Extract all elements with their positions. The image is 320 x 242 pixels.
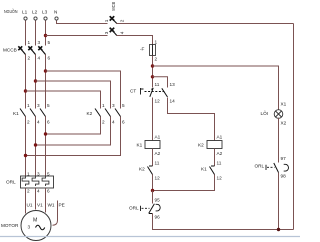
node phase2 tap: [34, 79, 37, 82]
wire phase2 MCCB to K1: [35, 55, 37, 109]
wire L1 down to MCCB: [25, 21, 27, 46]
svg-text:V1: V1: [37, 203, 43, 208]
MCCB pole 5-6: [38, 40, 50, 61]
svg-text:4: 4: [37, 120, 40, 125]
wire L3 tap to MCB pole2: [46, 35, 108, 37]
svg-text:6: 6: [47, 120, 50, 125]
node K2p3 join: [24, 154, 27, 157]
fuse F: [140, 40, 158, 62]
node lamp branch to bottom rail: [277, 228, 280, 231]
svg-text:1: 1: [27, 103, 30, 108]
svg-text:ORL: ORL: [6, 180, 16, 185]
svg-text:PE: PE: [59, 203, 65, 208]
wire N to MCB pole1: [57, 21, 108, 24]
node phase3 tap: [44, 69, 47, 72]
wire lamp to ORL97: [278, 118, 280, 163]
contactor K2 main contacts: [87, 103, 126, 125]
svg-text:2: 2: [28, 56, 31, 61]
wire node to ORL 95: [152, 191, 154, 204]
svg-text:W1: W1: [48, 203, 55, 208]
MCCB pole 3-4: [28, 40, 40, 61]
wire MCB 2 to right rail: [117, 23, 294, 25]
svg-text:X2: X2: [281, 121, 287, 126]
node CT13 tap: [151, 75, 154, 78]
svg-text:5: 5: [47, 172, 50, 177]
svg-text:L3: L3: [42, 10, 48, 15]
svg-text:L1: L1: [22, 10, 28, 15]
NC contact K1: [201, 161, 222, 181]
svg-text:4: 4: [38, 56, 41, 61]
node K2p1 join: [44, 132, 47, 135]
wire K2 coil to K1 NC: [214, 149, 216, 167]
MCB pole 1-2: [104, 16, 125, 23]
wire phase1 MCCB to K1: [25, 55, 27, 109]
svg-text:5: 5: [48, 40, 51, 45]
svg-text:1: 1: [102, 103, 105, 108]
svg-text:1: 1: [28, 40, 31, 45]
svg-text:12: 12: [155, 99, 161, 104]
wire K1 coil to K2 NC: [152, 149, 154, 167]
wire K1 outputs down to ORL: [25, 117, 27, 177]
svg-text:95: 95: [155, 198, 161, 203]
wire L3 down to MCCB: [45, 21, 47, 46]
wire L2 down to MCCB: [35, 21, 37, 46]
NC contact K2: [139, 161, 160, 181]
wire phase1 to K2 pole1: [26, 91, 101, 109]
wire fuse down: [152, 56, 154, 88]
contactor K1 main contacts: [13, 103, 50, 125]
wire PE to motor frame: [53, 201, 58, 226]
svg-text:2: 2: [155, 57, 158, 62]
svg-text:2: 2: [102, 120, 105, 125]
ORL NO contact 97-98: [255, 156, 289, 179]
svg-text:LỖI: LỖI: [261, 110, 269, 116]
svg-text:98: 98: [281, 174, 287, 179]
wire to lamp branch: [153, 66, 279, 110]
node L3 tap: [44, 34, 47, 37]
svg-text:MCB: MCB: [111, 2, 116, 11]
wire phase3 MCCB to K1: [45, 55, 47, 109]
lamp LOI: [261, 110, 283, 119]
wire to CT 13: [153, 77, 168, 88]
MCCB pole 1-2: [18, 40, 30, 61]
wire right rail down: [293, 24, 295, 230]
svg-text:11: 11: [155, 82, 160, 87]
svg-text:3: 3: [112, 103, 115, 108]
svg-text:5: 5: [122, 103, 125, 108]
svg-text:3: 3: [104, 31, 109, 34]
wire V1 to motor: [35, 188, 37, 210]
motor M: [1, 211, 51, 241]
wire K2 NC down to node: [152, 175, 154, 191]
svg-text:97: 97: [281, 156, 287, 161]
svg-text:96: 96: [155, 215, 161, 220]
svg-text:1: 1: [27, 172, 30, 177]
wire CT14 to K2 coil: [168, 98, 215, 141]
wire ORL 96 to bottom rail: [153, 214, 294, 230]
svg-text:M: M: [33, 218, 37, 224]
svg-text:K1: K1: [13, 111, 19, 116]
svg-text:6: 6: [48, 56, 51, 61]
coil K2: [198, 135, 223, 157]
svg-text:5: 5: [47, 103, 50, 108]
wire phase2 to K2 pole2: [36, 81, 111, 109]
wire K2 pole2 out to phase2: [36, 117, 111, 146]
node lamp tap: [151, 64, 154, 67]
svg-text:3: 3: [38, 40, 41, 45]
svg-text:K1: K1: [201, 167, 207, 172]
wire MCB 4 to fuse: [117, 36, 153, 45]
coil K1: [137, 135, 161, 157]
svg-text:14: 14: [170, 99, 176, 104]
heater element phase2: [32, 176, 39, 186]
ORL NC contact 95-96: [129, 198, 160, 220]
svg-text:X1: X1: [281, 102, 287, 107]
selector switch CT: [130, 82, 175, 104]
overload relay ORL box: [6, 172, 54, 194]
svg-text:L2: L2: [32, 10, 38, 15]
svg-text:MOTOR: MOTOR: [1, 223, 19, 228]
svg-text:2: 2: [120, 19, 125, 22]
svg-text:3: 3: [28, 225, 31, 230]
svg-text:A1: A1: [217, 135, 223, 140]
svg-text:ORL: ORL: [129, 206, 139, 211]
svg-text:NGUỒN: NGUỒN: [4, 8, 18, 14]
svg-text:U1: U1: [27, 203, 33, 208]
svg-text:4: 4: [112, 120, 115, 125]
svg-text:A1: A1: [155, 135, 161, 140]
svg-text:6: 6: [122, 120, 125, 125]
wire K2 pole1 out to phase3: [46, 117, 101, 135]
terminal L2: [32, 10, 38, 21]
terminal L1: [22, 10, 28, 21]
svg-text:CT: CT: [130, 89, 136, 94]
svg-text:A2: A2: [155, 151, 161, 156]
wire W1 to motor: [45, 188, 47, 213]
svg-text:12: 12: [155, 176, 161, 181]
svg-text:K2: K2: [139, 167, 145, 172]
svg-text:N: N: [54, 10, 57, 15]
svg-text:12: 12: [217, 176, 223, 181]
svg-text:2: 2: [27, 120, 30, 125]
svg-text:K1: K1: [137, 143, 143, 148]
svg-text:-F: -F: [140, 47, 145, 52]
wire phase3 to K2 pole3: [46, 71, 121, 109]
wire CT12 to K1 coil: [152, 98, 154, 141]
svg-text:MCCB: MCCB: [3, 48, 17, 53]
svg-text:3: 3: [37, 103, 40, 108]
wire ORL98 down: [278, 173, 280, 230]
wire K2 pole3 out to phase1: [26, 117, 121, 156]
svg-text:6: 6: [47, 189, 50, 194]
svg-text:ORL: ORL: [255, 164, 265, 169]
heater element phase1: [22, 176, 29, 186]
svg-text:3: 3: [37, 172, 40, 177]
svg-text:11: 11: [217, 161, 222, 166]
svg-text:K2: K2: [198, 143, 204, 148]
node K2p2 join: [34, 143, 37, 146]
svg-text:A2: A2: [217, 151, 223, 156]
node coils join: [151, 189, 154, 192]
svg-text:4: 4: [120, 31, 125, 34]
svg-text:13: 13: [170, 82, 176, 87]
wire U1 to motor: [25, 188, 27, 214]
terminal L3: [42, 10, 48, 21]
frame line: [0, 236, 300, 238]
terminal N: [54, 10, 58, 21]
svg-text:1: 1: [155, 40, 158, 45]
MCB pole 3-4: [104, 28, 125, 36]
node phase1 tap: [24, 89, 27, 92]
wire K1 NC to node: [153, 175, 215, 191]
heater element phase3: [42, 176, 49, 186]
svg-text:1: 1: [104, 19, 109, 22]
svg-text:11: 11: [155, 161, 160, 166]
svg-text:K2: K2: [87, 111, 93, 116]
svg-text:2: 2: [27, 189, 30, 194]
svg-text:4: 4: [37, 189, 40, 194]
